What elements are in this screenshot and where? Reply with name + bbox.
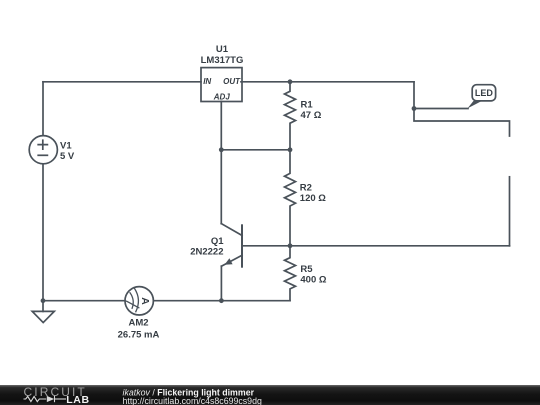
svg-text:ADJ: ADJ bbox=[213, 92, 231, 101]
svg-text:2N2222: 2N2222 bbox=[190, 247, 223, 258]
svg-text:LM317TG: LM317TG bbox=[201, 55, 244, 66]
svg-text:LAB: LAB bbox=[66, 394, 89, 405]
svg-text:47 Ω: 47 Ω bbox=[301, 110, 322, 121]
svg-text:AM2: AM2 bbox=[128, 318, 148, 329]
svg-text:120 Ω: 120 Ω bbox=[300, 193, 326, 204]
svg-text:R1: R1 bbox=[301, 99, 314, 110]
svg-text:5 V: 5 V bbox=[60, 151, 75, 162]
svg-text:LED: LED bbox=[475, 88, 494, 98]
svg-text:R2: R2 bbox=[300, 182, 312, 193]
svg-text:400 Ω: 400 Ω bbox=[300, 274, 326, 285]
svg-text:IN: IN bbox=[203, 77, 211, 86]
svg-text:R5: R5 bbox=[300, 264, 313, 275]
svg-text:http://circuitlab.com/c4s8c699: http://circuitlab.com/c4s8c699cs9dg bbox=[123, 396, 262, 405]
svg-text:OUT: OUT bbox=[223, 77, 241, 86]
svg-text:V1: V1 bbox=[60, 141, 72, 152]
svg-text:U1: U1 bbox=[216, 44, 229, 55]
svg-text:Q1: Q1 bbox=[211, 236, 224, 247]
svg-text:A: A bbox=[139, 297, 151, 305]
svg-text:26.75 mA: 26.75 mA bbox=[118, 329, 160, 340]
